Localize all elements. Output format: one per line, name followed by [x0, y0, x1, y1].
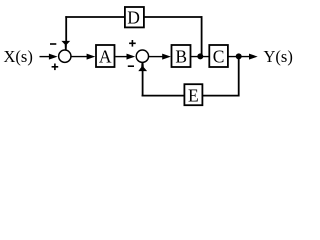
block A	[96, 45, 115, 67]
svg-text:E: E	[188, 86, 199, 106]
wire: B to C	[191, 56, 210, 58]
wire: bottom line left segment (E to S2 riser)	[142, 95, 185, 97]
wire: bottom line right segment (N2 to E)	[203, 95, 240, 97]
svg-text:X(s): X(s)	[4, 47, 33, 66]
wire: A to summing junction S2	[115, 54, 135, 60]
block D	[125, 7, 144, 28]
wire: top line right segment (N1 to D)	[144, 16, 203, 18]
wire: down into S1 with arrowhead	[61, 16, 70, 49]
svg-text:C: C	[213, 46, 225, 66]
wire: S2 to block B	[149, 54, 171, 60]
wire: X(s) to summing junction S1	[40, 54, 58, 60]
block C	[209, 45, 228, 67]
node N1 (tap to D)	[197, 53, 203, 59]
wire: S1 to block A	[71, 54, 95, 60]
sign minus (top input into S1)	[50, 43, 56, 45]
svg-text:A: A	[99, 46, 112, 66]
block E	[184, 84, 202, 105]
summing junction S1	[59, 50, 71, 62]
wire: up into S2 with arrowhead	[138, 63, 147, 97]
svg-text:B: B	[175, 46, 187, 66]
block B	[172, 45, 191, 67]
node N2 (tap to E)	[236, 53, 242, 59]
sign minus (E feedback into S2)	[128, 65, 134, 67]
wire: top line left segment (D to S1 drop)	[65, 16, 125, 18]
wire: C to Y(s) output	[228, 54, 258, 60]
sign plus (X input into S1)	[52, 64, 59, 71]
wire: N2 down to bottom feedback line	[238, 56, 240, 96]
svg-text:Y(s): Y(s)	[264, 47, 293, 66]
sign plus (A input into S2)	[129, 40, 136, 47]
summing junction S2	[136, 50, 148, 62]
svg-text:D: D	[127, 8, 140, 28]
wire: N1 up to top feedback line	[201, 16, 203, 56]
